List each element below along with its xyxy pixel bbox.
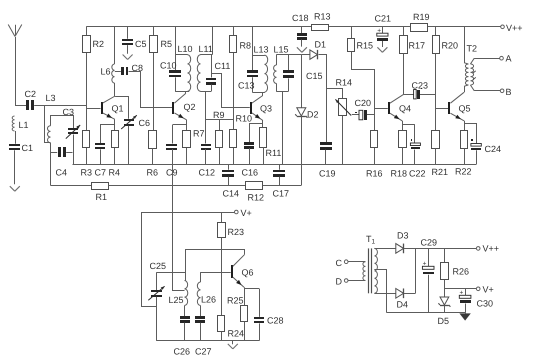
- trimmer capacitor C25: [148, 261, 166, 341]
- svg-text:C22: C22: [409, 169, 426, 179]
- resistor R19: [411, 12, 430, 32]
- terminal V+: [235, 208, 252, 218]
- svg-text:L11: L11: [199, 44, 213, 54]
- resistor R15: [348, 27, 375, 130]
- svg-text:C: C: [336, 258, 343, 268]
- ground (oscillator): [228, 341, 238, 349]
- transistor Q2: [172, 93, 196, 120]
- svg-text:C16: C16: [242, 168, 259, 178]
- svg-text:C24: C24: [485, 144, 502, 154]
- svg-text:C10: C10: [160, 61, 177, 71]
- svg-text:C9: C9: [166, 168, 178, 178]
- wire oscillator rail: [156, 340, 259, 342]
- capacitor C12: [199, 91, 216, 177]
- wire Q6 base: [200, 272, 231, 274]
- inductor L15: [274, 45, 289, 92]
- svg-text:C15: C15: [306, 71, 323, 81]
- svg-text:C23: C23: [412, 80, 429, 90]
- wire Q4 base: [374, 108, 388, 110]
- capacitor C24: [471, 123, 501, 164]
- wire Q5 emitter node: [465, 121, 477, 131]
- wire C13/L13 node: [252, 27, 265, 93]
- svg-text:R19: R19: [413, 12, 430, 22]
- svg-text:D4: D4: [397, 300, 409, 310]
- resistor R8: [230, 36, 252, 53]
- ground (C21): [377, 41, 387, 52]
- resistor R2: [83, 36, 105, 53]
- wire C8 to Q2 base: [129, 72, 173, 108]
- capacitor C15: [283, 55, 323, 92]
- capacitor C20: [352, 98, 374, 120]
- wire T1 center tap: [374, 270, 386, 313]
- svg-text:C6: C6: [139, 118, 151, 128]
- svg-text:L6: L6: [101, 67, 111, 77]
- svg-text:R22: R22: [455, 167, 472, 177]
- svg-text:D1: D1: [315, 40, 327, 50]
- svg-text:R26: R26: [453, 267, 470, 277]
- svg-text:C14: C14: [223, 189, 240, 199]
- wire Q4 emitter node: [403, 121, 415, 130]
- inductor L25: [169, 249, 188, 316]
- wire down left of L3: [45, 105, 51, 142]
- wire C25 to L25: [156, 272, 185, 274]
- wire Q5 collector: [464, 86, 466, 92]
- wire L3 bottom down to R1: [50, 143, 52, 186]
- svg-text:D2: D2: [307, 110, 319, 120]
- wire supply V++ line: [404, 248, 477, 250]
- inductor L13: [254, 45, 269, 93]
- capacitor C21: [375, 14, 392, 42]
- resistor R18: [391, 131, 408, 179]
- resistor R7: [183, 129, 205, 165]
- svg-text:+: +: [423, 260, 427, 267]
- svg-text:R6: R6: [147, 168, 159, 178]
- transformer T1: [363, 234, 378, 293]
- terminal C: [336, 258, 366, 268]
- wire L3 top to C3: [51, 116, 74, 129]
- wire L25 to Q6 collector: [185, 249, 244, 251]
- transformer T2: [464, 27, 477, 91]
- wire Q5 base: [436, 108, 449, 110]
- trimmer capacitor C6: [115, 97, 150, 165]
- svg-text:Q3: Q3: [260, 104, 272, 114]
- inductor L26: [197, 272, 216, 316]
- resistor R25: [227, 296, 248, 341]
- svg-text:L10: L10: [178, 44, 193, 54]
- svg-text:R2: R2: [93, 39, 105, 49]
- resistor R12: [246, 182, 302, 203]
- wire Q4 collector: [403, 93, 405, 95]
- capacitor C17: [273, 164, 290, 198]
- svg-text:R9: R9: [213, 110, 225, 120]
- svg-text:V+: V+: [483, 285, 494, 295]
- svg-text:L25: L25: [169, 295, 184, 305]
- svg-text:R12: R12: [248, 193, 265, 203]
- wire Q3 emitter node: [249, 121, 263, 128]
- capacitor C18: [292, 13, 309, 40]
- wire bias row Q3: [206, 119, 233, 121]
- svg-text:C3: C3: [63, 107, 75, 117]
- capacitor C22: [409, 124, 426, 178]
- inductor L11: [197, 44, 213, 91]
- terminal A: [474, 54, 511, 64]
- capacitor C2: [25, 89, 37, 110]
- svg-text:C25: C25: [150, 261, 167, 271]
- svg-text:R15: R15: [357, 41, 374, 51]
- wire R2 column: [86, 27, 88, 131]
- resistor R3: [81, 131, 93, 178]
- ground (antenna): [10, 186, 20, 191]
- wire Q6 emitter node: [245, 287, 260, 305]
- resistor R10: [230, 114, 253, 165]
- wire C2 to L3 corner: [34, 105, 44, 107]
- svg-text:C4: C4: [56, 168, 68, 178]
- inductor L10: [178, 44, 193, 91]
- resistor R5: [150, 36, 173, 53]
- svg-text:C1: C1: [22, 143, 34, 153]
- svg-text:R4: R4: [109, 168, 121, 178]
- terminal D: [336, 277, 366, 287]
- wire supply return: [386, 312, 465, 314]
- svg-text:R5: R5: [161, 39, 173, 49]
- svg-text:V++: V++: [483, 244, 500, 254]
- svg-text:D5: D5: [438, 316, 450, 326]
- svg-text:C28: C28: [267, 316, 284, 326]
- wire L15 bottom node: [276, 92, 288, 165]
- capacitor C16: [242, 124, 259, 178]
- capacitor C14: [222, 164, 239, 198]
- capacitor C26: [174, 316, 191, 357]
- capacitor C23: [403, 80, 435, 99]
- wire C9 to oscillator: [172, 149, 185, 291]
- wire Q2 emitter node: [173, 120, 187, 131]
- resistor R20: [433, 27, 459, 131]
- zener diode D2: [295, 55, 318, 186]
- wire A continue: [44, 105, 86, 107]
- svg-text:L1: L1: [19, 120, 29, 130]
- resistor R1: [50, 183, 245, 202]
- terminal V++ supply: [476, 244, 499, 254]
- capacitor C4: [50, 147, 72, 178]
- wire V+ line: [141, 212, 235, 214]
- capacitor C8: [115, 63, 143, 75]
- svg-text:C30: C30: [477, 299, 494, 309]
- wire antenna to C2: [15, 105, 26, 107]
- svg-text:C7: C7: [95, 168, 107, 178]
- diode D4: [374, 288, 415, 309]
- svg-text:V+: V+: [241, 208, 252, 218]
- wire left drop: [142, 212, 157, 307]
- resistor R21: [432, 131, 449, 178]
- resistor R6: [147, 131, 159, 178]
- transistor Q5: [448, 92, 471, 121]
- diode D3: [374, 231, 408, 254]
- svg-text:D: D: [336, 277, 343, 287]
- capacitor C11: [206, 55, 230, 92]
- svg-text:R7: R7: [193, 129, 205, 139]
- zener diode D5: [438, 297, 451, 326]
- capacitor C19: [319, 142, 336, 179]
- svg-text:R11: R11: [266, 148, 282, 158]
- svg-text:C2: C2: [25, 89, 37, 99]
- wire D4 riser: [415, 248, 417, 293]
- terminal V+ supply: [476, 285, 493, 295]
- wire Q3 collector: [262, 92, 264, 95]
- wire R8 column: [233, 27, 235, 130]
- resistor R11: [260, 128, 282, 165]
- wire C10/L10 node: [175, 27, 189, 92]
- transistor Q6: [231, 255, 254, 287]
- transistor Q1: [101, 96, 124, 119]
- wire L15/C15 top: [276, 54, 301, 56]
- resistor R22: [455, 131, 472, 177]
- inductor L3: [46, 93, 56, 143]
- wire Q6 collector: [244, 249, 246, 255]
- svg-text:R17: R17: [409, 41, 426, 51]
- resistor R17: [400, 27, 426, 95]
- svg-text:R13: R13: [314, 12, 331, 22]
- svg-text:L15: L15: [274, 45, 289, 55]
- svg-text:R21: R21: [432, 167, 449, 177]
- svg-text:Q1: Q1: [112, 104, 124, 114]
- svg-text:R8: R8: [240, 41, 252, 51]
- capacitor C29: [421, 238, 438, 313]
- svg-text:C27: C27: [195, 347, 212, 357]
- svg-text:Q5: Q5: [459, 104, 471, 114]
- svg-text:R20: R20: [442, 41, 459, 51]
- trimmer capacitor C3: [63, 107, 81, 164]
- svg-text:T2: T2: [467, 44, 478, 54]
- svg-text:A: A: [506, 54, 512, 64]
- svg-text:B: B: [506, 87, 512, 97]
- svg-text:R23: R23: [228, 227, 245, 237]
- svg-text:C21: C21: [375, 14, 392, 24]
- inductor L1: [12, 116, 28, 144]
- svg-text:C17: C17: [273, 189, 290, 199]
- svg-text:C19: C19: [319, 169, 336, 179]
- resistor R24: [218, 316, 245, 341]
- resistor R23: [218, 212, 245, 315]
- svg-text:L26: L26: [201, 295, 216, 305]
- trimpot R14: [335, 78, 352, 165]
- capacitor C10: [160, 55, 181, 92]
- wire supply V+ line: [444, 288, 476, 290]
- wire top rail: [86, 26, 501, 28]
- resistor R16: [366, 131, 383, 179]
- ground (C5): [123, 45, 133, 59]
- wire D1 to C19 and R14: [327, 55, 343, 143]
- transistor Q3: [250, 96, 272, 121]
- capacitor C5: [122, 27, 147, 49]
- svg-text:+: +: [460, 289, 464, 296]
- ground (C18): [297, 40, 307, 53]
- wire Q2 collector: [185, 91, 187, 93]
- svg-text:R3: R3: [81, 168, 93, 178]
- wire L11/C11 node: [200, 27, 212, 92]
- svg-text:Q2: Q2: [184, 102, 196, 112]
- svg-text:R25: R25: [227, 296, 244, 306]
- svg-text:Q6: Q6: [242, 268, 254, 278]
- svg-text:C13: C13: [238, 81, 255, 91]
- capacitor C7: [95, 124, 107, 177]
- ground (supply): [459, 312, 470, 320]
- diode D1: [301, 40, 327, 60]
- terminal V++: [501, 23, 523, 33]
- svg-text:R1: R1: [96, 192, 108, 202]
- capacitor C30: [459, 289, 493, 313]
- capacitor C28: [254, 289, 284, 341]
- svg-text:C20: C20: [355, 98, 372, 108]
- svg-text:L3: L3: [46, 93, 56, 103]
- svg-text:C29: C29: [421, 238, 438, 248]
- wire ground rail: [73, 164, 477, 166]
- wire Q1 collector: [114, 83, 117, 97]
- svg-text:C12: C12: [199, 168, 216, 178]
- wire Q1 base: [86, 108, 100, 110]
- resistor R13: [312, 12, 331, 31]
- inductor L6: [101, 27, 115, 83]
- capacitor C1: [9, 143, 33, 184]
- svg-text:D3: D3: [397, 231, 409, 241]
- svg-text:R24: R24: [228, 329, 245, 339]
- wire Q3 base riser: [211, 73, 250, 108]
- capacitor C9: [166, 125, 178, 178]
- svg-text:R10: R10: [236, 114, 253, 124]
- svg-text:C18: C18: [292, 13, 309, 23]
- svg-text:Q4: Q4: [399, 104, 411, 114]
- svg-text:C11: C11: [215, 61, 231, 71]
- svg-text:R16: R16: [366, 169, 383, 179]
- resistor R4: [109, 131, 121, 178]
- resistor R26: [441, 248, 470, 297]
- svg-text:L13: L13: [254, 45, 269, 55]
- wire Q1 emitter node: [100, 119, 115, 130]
- capacitor C13: [238, 55, 258, 92]
- svg-text:R14: R14: [336, 78, 353, 88]
- transistor Q4: [388, 95, 411, 121]
- svg-text:V++: V++: [506, 23, 523, 33]
- wire base feed Q1: [34, 105, 44, 107]
- svg-text:+: +: [377, 27, 381, 34]
- svg-text:C26: C26: [174, 347, 191, 357]
- capacitor C27: [195, 316, 212, 357]
- antenna: [8, 25, 22, 106]
- terminal B: [474, 87, 511, 97]
- resistor R9: [213, 110, 225, 164]
- wire R5 column: [153, 27, 155, 131]
- svg-text:R18: R18: [391, 169, 408, 179]
- svg-text:C5: C5: [135, 39, 147, 49]
